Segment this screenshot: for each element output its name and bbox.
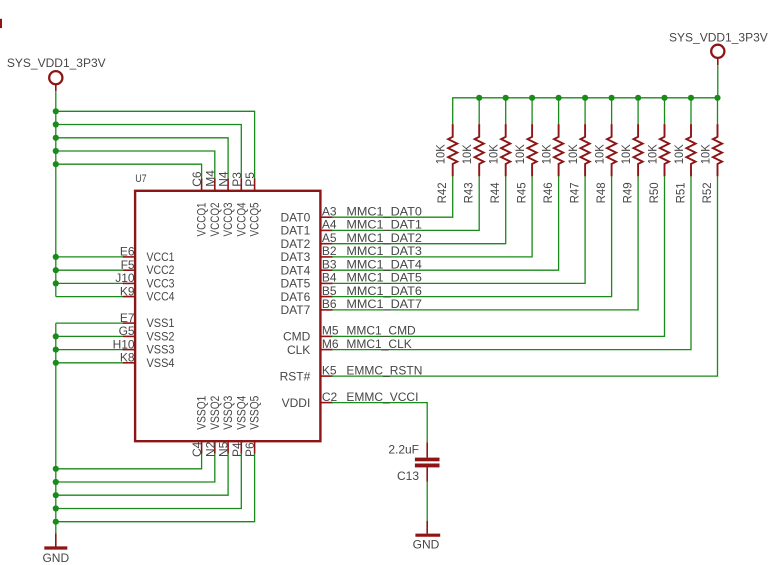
ground symbol GND (left) [44,533,67,548]
svg-text:G5: G5 [119,324,135,338]
wire net MMC1_DAT1 [332,176,479,230]
svg-text:SYS_VDD1_3P3V: SYS_VDD1_3P3V [7,56,106,70]
wire net EMMC_VCCI [332,403,427,443]
wire bus drop R50 [664,98,666,124]
wire net EMMC_RSTN [332,176,718,376]
wire SYS_VDD1_3P3V bus to resistors [453,65,718,124]
capacitor C13 2.2uF [415,442,440,481]
svg-text:10K: 10K [434,144,448,164]
U7 bottom pin stubs C4 N2 N5 P4 P6 [202,441,255,453]
svg-text:10K: 10K [672,144,686,164]
svg-text:C4: C4 [190,441,204,457]
svg-text:A5: A5 [322,231,337,245]
wire GND to VSS2 [56,335,124,337]
svg-text:R43: R43 [462,182,476,203]
power symbol SYS_VDD1_3P3V (left) [49,71,62,91]
svg-text:B2: B2 [322,244,337,258]
svg-text:10K: 10K [460,144,474,164]
junction GND rail / VSSQ1 [53,466,59,472]
junction bus / R47 [582,95,588,101]
svg-text:J10: J10 [115,271,135,285]
wire GND to pin N2 [56,453,215,482]
resistor R48 10K [607,124,616,176]
svg-text:DAT6: DAT6 [281,290,311,304]
wire VDD to pin P3 [56,125,242,180]
wire net MMC1_CMD [332,176,665,336]
resistor R44 10K [501,124,510,176]
wire VDD rail left [55,91,57,296]
svg-text:DAT2: DAT2 [281,237,311,251]
svg-text:B3: B3 [322,258,337,272]
svg-text:A3: A3 [322,205,337,219]
wire GND to pin P6 [56,453,255,522]
junction VDD rail / N4 [53,135,59,141]
resistor R50 10K [660,124,669,176]
wire GND to pin C4 [56,453,202,469]
svg-text:DAT0: DAT0 [281,211,311,225]
svg-text:DAT3: DAT3 [281,250,311,264]
wire VDD to VCC3 [56,282,124,284]
svg-text:VSS4: VSS4 [147,356,175,370]
wire net MMC1_DAT0 [332,176,453,217]
svg-text:H10: H10 [113,337,135,351]
svg-text:MMC1_DAT0: MMC1_DAT0 [346,205,422,219]
svg-text:10K: 10K [540,144,554,164]
wire GND to pin P4 [56,453,242,509]
svg-text:VSSQ2: VSSQ2 [208,395,222,429]
svg-text:E6: E6 [120,245,135,259]
wire bus drop R51 [690,98,692,124]
wire GND to VSS4 [56,362,124,364]
svg-text:A4: A4 [322,218,337,232]
junction bus / R49 [635,95,641,101]
svg-text:MMC1_DAT1: MMC1_DAT1 [346,218,422,232]
svg-text:MMC1_DAT7: MMC1_DAT7 [346,297,422,311]
svg-text:K5: K5 [322,363,337,377]
svg-text:EMMC_VCCI: EMMC_VCCI [346,390,418,404]
wire net MMC1_DAT5 [332,176,585,283]
svg-text:N5: N5 [217,441,231,457]
junction VDD rail / P3 [53,121,59,127]
svg-text:10K: 10K [593,144,607,164]
wire VDD to pin M4 [56,151,215,179]
resistor R42 10K [448,124,457,176]
svg-text:RST#: RST# [280,369,311,383]
resistor R47 10K [581,124,590,176]
svg-text:K9: K9 [120,284,135,298]
svg-text:SYS_VDD1_3P3V: SYS_VDD1_3P3V [669,30,768,44]
svg-text:VCCQ2: VCCQ2 [208,202,222,236]
svg-text:VCCQ4: VCCQ4 [234,202,248,236]
wire net MMC1_CLK [332,176,691,349]
wire C13 to GND [426,482,428,521]
junction GND rail / VSSQ3 [53,492,59,498]
svg-text:C2: C2 [322,390,338,404]
svg-text:R47: R47 [568,182,582,203]
svg-text:P4: P4 [230,442,244,457]
svg-text:VCC2: VCC2 [147,263,175,277]
svg-text:MMC1_DAT5: MMC1_DAT5 [346,271,422,285]
wire VDD to pin P5 [56,111,255,179]
svg-text:VSS3: VSS3 [147,343,175,357]
wire net MMC1_DAT2 [332,176,506,243]
svg-text:DAT1: DAT1 [281,224,311,238]
resistor R46 10K [554,124,563,176]
junction bus / R50 [661,95,667,101]
junction VDD rail / C6 [53,161,59,167]
svg-text:10K: 10K [566,144,580,164]
IC U7 body [135,191,320,441]
svg-text:MMC1_DAT6: MMC1_DAT6 [346,284,422,298]
resistor R45 10K [528,124,537,176]
svg-text:R42: R42 [435,182,449,203]
U7 top pin stubs C6 M4 N4 P3 P5 [202,179,255,191]
svg-text:VCCQ5: VCCQ5 [248,202,262,236]
junction bus / R48 [609,95,615,101]
junction GND rail / VSSQ2 [53,479,59,485]
wire VDD to VCC1 [56,256,124,258]
junction GND rail / VSS3 [53,347,59,353]
svg-text:B6: B6 [322,297,337,311]
svg-text:VCC1: VCC1 [147,250,175,264]
wire bus drop R49 [637,98,639,124]
junction bus / R52 [714,95,720,101]
junction VDD rail / M4 [53,148,59,154]
sheet title fragment (clipped glyph) [0,19,2,28]
svg-text:R44: R44 [488,182,502,203]
svg-text:P6: P6 [243,442,257,457]
resistor R43 10K [475,124,484,176]
svg-text:VSSQ5: VSSQ5 [248,395,262,429]
wire net MMC1_DAT6 [332,176,612,296]
svg-text:10K: 10K [487,144,501,164]
svg-text:GND: GND [42,551,69,565]
svg-text:VCCQ3: VCCQ3 [221,202,235,236]
svg-text:R50: R50 [647,182,661,203]
svg-text:M5: M5 [322,324,339,338]
svg-text:CLK: CLK [287,343,310,357]
wire bus drop R43 [478,98,480,124]
svg-text:10K: 10K [699,144,713,164]
svg-text:C6: C6 [190,171,204,187]
junction VDD rail / VCC1 [53,254,59,260]
svg-text:VCCQ1: VCCQ1 [195,202,209,236]
wire GND to VSS1 [56,322,124,324]
svg-text:2.2uF: 2.2uF [388,443,419,457]
svg-text:VCC4: VCC4 [147,290,175,304]
svg-text:VSSQ4: VSSQ4 [234,395,248,429]
svg-text:10K: 10K [646,144,660,164]
svg-text:MMC1_DAT2: MMC1_DAT2 [346,231,422,245]
svg-text:M6: M6 [322,337,339,351]
wire net MMC1_DAT7 [332,176,638,310]
wire bus drop R46 [558,98,560,124]
svg-text:VSS2: VSS2 [147,329,175,343]
wire VDD to VCC4 [56,296,124,298]
svg-text:MMC1_CLK: MMC1_CLK [346,337,411,351]
svg-text:R45: R45 [515,182,529,203]
svg-text:MMC1_CMD: MMC1_CMD [346,324,416,338]
wire bus drop R45 [531,98,533,124]
svg-text:U7: U7 [135,173,147,185]
wire bus drop R48 [611,98,613,124]
svg-text:MMC1_DAT3: MMC1_DAT3 [346,244,422,258]
svg-text:10K: 10K [619,144,633,164]
svg-text:DAT7: DAT7 [281,303,311,317]
resistor R49 10K [634,124,643,176]
junction bus / R44 [503,95,509,101]
junction GND rail / VSS4 [53,360,59,366]
svg-text:P5: P5 [243,172,257,187]
svg-text:F5: F5 [121,258,135,272]
resistor R51 10K [686,124,695,176]
svg-text:VSSQ1: VSSQ1 [195,395,209,429]
junction GND rail / VSSQ5 [53,519,59,525]
svg-text:K8: K8 [120,351,135,365]
U7 right pin stubs [320,217,332,402]
svg-text:MMC1_DAT4: MMC1_DAT4 [346,258,422,272]
svg-text:DAT5: DAT5 [281,277,311,291]
junction bus / R43 [476,95,482,101]
svg-text:N2: N2 [203,441,217,457]
wire VDD to pin C6 [56,164,202,179]
power symbol SYS_VDD1_3P3V (right) [711,45,724,65]
svg-text:B4: B4 [322,271,337,285]
svg-text:VSS1: VSS1 [147,316,175,330]
svg-text:VCC3: VCC3 [147,276,175,290]
svg-text:P3: P3 [230,172,244,187]
svg-text:R51: R51 [673,182,687,203]
junction bus / R51 [688,95,694,101]
junction GND rail / VSSQ4 [53,505,59,511]
svg-text:B5: B5 [322,284,337,298]
junction bus / R46 [556,95,562,101]
svg-text:R49: R49 [621,182,635,203]
wire bus drop R44 [505,98,507,124]
wire bus drop R52 [717,98,719,124]
junction VDD rail / VCC3 [53,280,59,286]
wire GND to VSS3 [56,349,124,351]
U7 left pin stubs [123,257,135,363]
wire VDD to VCC2 [56,269,124,271]
junction GND rail / VSS2 [53,333,59,339]
svg-text:R52: R52 [700,182,714,203]
svg-text:CMD: CMD [283,330,311,344]
svg-text:R46: R46 [541,182,555,203]
svg-text:GND: GND [413,538,440,552]
ground symbol GND (C13) [415,521,440,536]
wire VDD to pin N4 [56,138,228,180]
wire net MMC1_DAT3 [332,176,532,257]
svg-text:C13: C13 [397,469,419,483]
wire GND to pin N5 [56,453,228,496]
resistor R52 10K [713,124,722,176]
svg-text:E7: E7 [120,311,135,325]
svg-text:DAT4: DAT4 [281,264,311,278]
svg-text:10K: 10K [513,144,527,164]
svg-text:VSSQ3: VSSQ3 [221,395,235,429]
wire GND rail left [55,323,57,533]
svg-text:R48: R48 [594,182,608,203]
svg-text:M4: M4 [203,170,217,187]
wire bus drop R47 [584,98,586,124]
svg-text:VDDI: VDDI [282,396,311,410]
junction VDD rail / P5 [53,108,59,114]
junction bus / R45 [529,95,535,101]
wire net MMC1_DAT4 [332,176,559,270]
svg-text:N4: N4 [217,171,231,187]
junction VDD rail / VCC2 [53,267,59,273]
svg-text:EMMC_RSTN: EMMC_RSTN [346,363,422,377]
